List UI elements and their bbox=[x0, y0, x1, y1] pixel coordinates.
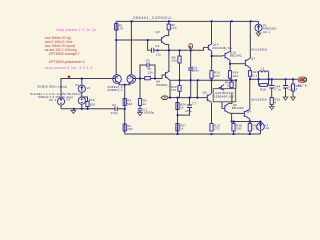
supply V1 top right bbox=[255, 21, 277, 36]
svg-text:AC 1: AC 1 bbox=[263, 30, 270, 34]
svg-text:470µ: 470µ bbox=[111, 111, 118, 115]
svg-text:.step param C 0 2n 2n: .step param C 0 2n 2n bbox=[55, 28, 96, 32]
capacitor C11 bbox=[188, 50, 199, 97]
wire Q4 collector/emitter columns bbox=[169, 63, 170, 98]
svg-text:0.1: 0.1 bbox=[253, 73, 258, 77]
svg-text:1k: 1k bbox=[143, 102, 147, 106]
svg-text:5k6: 5k6 bbox=[127, 102, 132, 106]
inductor L1 bbox=[259, 66, 269, 79]
source V1 bbox=[78, 97, 85, 109]
output column from rail bbox=[249, 21, 251, 58]
svg-text:2N5401_CORDELL: 2N5401_CORDELL bbox=[133, 16, 173, 20]
output node wire bbox=[250, 78, 298, 80]
svg-text:2N3904_C: 2N3904_C bbox=[156, 83, 172, 87]
svg-text:R17 8: R17 8 bbox=[298, 83, 307, 87]
svg-text:.step param Z list -1.3 1.3: .step param Z list -1.3 1.3 bbox=[44, 66, 93, 70]
wire Q3 emitter to Q4 collector column bbox=[168, 50, 170, 62]
transistor Q7 bbox=[244, 57, 255, 71]
resistor R6 bbox=[166, 21, 177, 50]
Vbe multiplier R41 bbox=[225, 80, 234, 89]
Vbe multiplier block Q15 bbox=[213, 80, 236, 108]
out port bbox=[298, 77, 307, 87]
svg-text:Q1: Q1 bbox=[114, 76, 118, 80]
svg-text:.OPTIONS numdgt=7: .OPTIONS numdgt=7 bbox=[48, 52, 80, 56]
svg-text:2N3904_C: 2N3904_C bbox=[108, 88, 124, 92]
emitter tail wire bbox=[119, 85, 131, 99]
svg-text:Q2: Q2 bbox=[128, 76, 132, 80]
resistor R22 bbox=[248, 70, 258, 79]
resistor R27 bbox=[176, 124, 186, 132]
resistor R28 bbox=[232, 122, 242, 135]
svg-text:R18: R18 bbox=[260, 88, 266, 92]
svg-text:C7: C7 bbox=[192, 102, 196, 106]
svg-text:100n: 100n bbox=[192, 69, 199, 73]
svg-text:1A: 1A bbox=[265, 126, 269, 130]
resistor R18 (parallel) bbox=[259, 79, 269, 91]
svg-text:27p: 27p bbox=[156, 52, 162, 56]
wire col B bbox=[130, 21, 132, 74]
svg-text:MJL3281A: MJL3281A bbox=[252, 98, 268, 102]
resistor R24 bbox=[228, 71, 238, 81]
red probe circle bbox=[189, 44, 193, 51]
resistor R8 bbox=[172, 50, 182, 97]
resistor R26 bbox=[176, 98, 186, 134]
svg-text:BD139C: BD139C bbox=[230, 54, 242, 58]
transistor Q14 bbox=[204, 43, 232, 71]
svg-text:12k: 12k bbox=[148, 70, 154, 74]
svg-text:2k2: 2k2 bbox=[172, 59, 177, 63]
resistor R5 bbox=[138, 99, 147, 106]
capacitor C1 bbox=[138, 105, 155, 115]
svg-text:8: 8 bbox=[274, 101, 276, 105]
svg-text:Q3: Q3 bbox=[156, 30, 160, 34]
resistor R19 bbox=[210, 124, 220, 132]
svg-text:SINE(0 200m 1meg): SINE(0 200m 1meg) bbox=[37, 84, 67, 88]
wire y50 bbox=[154, 49, 204, 51]
svg-text:C4: C4 bbox=[155, 44, 159, 48]
svg-text:4: 4 bbox=[296, 87, 298, 91]
resistor R16 bbox=[82, 97, 96, 109]
node column bbox=[196, 80, 198, 97]
feedback column bbox=[139, 79, 141, 99]
resistor R10 bbox=[210, 71, 220, 81]
resistor R7 bbox=[145, 67, 154, 80]
svg-text:170: 170 bbox=[171, 26, 177, 30]
svg-text:.OPTIONS plotwinsize=0: .OPTIONS plotwinsize=0 bbox=[48, 60, 85, 64]
transistor Q6 bbox=[224, 94, 245, 122]
wire y40 bbox=[116, 39, 159, 41]
svg-text:2SB649P_KS: 2SB649P_KS bbox=[214, 94, 234, 98]
red net marker bbox=[68, 76, 70, 78]
svg-text:170: 170 bbox=[118, 27, 124, 31]
svg-text:270: 270 bbox=[214, 74, 220, 78]
transistor Q3 bbox=[156, 30, 166, 45]
svg-text:MJL3281A: MJL3281A bbox=[252, 47, 268, 51]
svg-text:L1: L1 bbox=[261, 66, 265, 70]
svg-text:4.7µ: 4.7µ bbox=[274, 88, 281, 92]
resistor R21 bbox=[269, 98, 280, 110]
transistor Q2 bbox=[127, 75, 136, 85]
svg-text:100: 100 bbox=[90, 102, 96, 106]
resistor R43 bbox=[291, 79, 302, 100]
transistor Q4out bbox=[244, 79, 251, 121]
svg-text:270: 270 bbox=[214, 127, 220, 131]
emitter wire Q16 to Q7 base bbox=[230, 63, 244, 65]
transistor Q1 bbox=[113, 75, 122, 85]
resistor R9 bbox=[115, 23, 124, 30]
capacitor C44 bbox=[269, 79, 281, 97]
transistor Q16 bbox=[223, 50, 243, 70]
svg-text:10000µ: 10000µ bbox=[143, 111, 154, 115]
svg-text:BD139C: BD139C bbox=[232, 106, 244, 110]
input base wire bbox=[61, 79, 113, 98]
source V3 bbox=[57, 98, 70, 109]
resistor R17 bbox=[248, 122, 258, 135]
svg-text:AC 1: AC 1 bbox=[49, 98, 56, 102]
bottom rail bbox=[125, 133, 261, 135]
input net flag bbox=[161, 96, 168, 100]
input node wire y96.2 bbox=[168, 97, 207, 99]
svg-text:V2: V2 bbox=[75, 83, 79, 87]
input bottom wire bbox=[61, 108, 115, 110]
svg-text:470: 470 bbox=[171, 88, 177, 92]
node column R3/R4 bbox=[124, 99, 126, 134]
capacitor C7 bbox=[178, 98, 197, 116]
svg-text:10: 10 bbox=[227, 84, 231, 88]
resistor R40 bbox=[171, 85, 181, 92]
svg-text:240: 240 bbox=[127, 127, 133, 131]
current source I1 bbox=[257, 122, 270, 135]
svg-text:C2: C2 bbox=[112, 103, 116, 107]
svg-text:V1: V1 bbox=[87, 86, 91, 90]
svg-text:1k: 1k bbox=[180, 106, 184, 110]
resistor R3 bbox=[123, 99, 132, 106]
svg-text:100: 100 bbox=[233, 74, 239, 78]
capacitor C5 loop bbox=[140, 59, 155, 79]
svg-text:470p: 470p bbox=[185, 109, 192, 113]
capacitor C3 bbox=[283, 79, 294, 100]
capacitor C2 bbox=[111, 103, 125, 115]
svg-text:Q5: Q5 bbox=[203, 91, 207, 95]
ground (input) bbox=[71, 109, 76, 114]
source V2 bbox=[75, 79, 91, 98]
resistor R4 bbox=[123, 124, 133, 131]
emitter wire Q14 to Q16 base bbox=[212, 55, 223, 57]
lower emitter wire bbox=[232, 121, 261, 123]
mid wire y80.2 bbox=[171, 79, 236, 81]
driver column from rail bbox=[229, 21, 231, 52]
svg-text:Q7: Q7 bbox=[251, 57, 255, 61]
svg-text:1k: 1k bbox=[180, 127, 184, 131]
VAS column from rail bbox=[211, 21, 213, 44]
svg-text:C5: C5 bbox=[146, 59, 150, 63]
top supply rail bbox=[116, 21, 258, 74]
transistor Q4b bbox=[156, 71, 172, 87]
capacitor C4 bbox=[148, 40, 162, 56]
svg-text:100: 100 bbox=[236, 127, 242, 131]
svg-text:2SC4648_KS: 2SC4648_KS bbox=[212, 46, 232, 50]
feedback wire y78 bbox=[136, 75, 166, 79]
transistor Q5 bbox=[203, 80, 212, 123]
svg-text:Q4: Q4 bbox=[247, 110, 251, 114]
